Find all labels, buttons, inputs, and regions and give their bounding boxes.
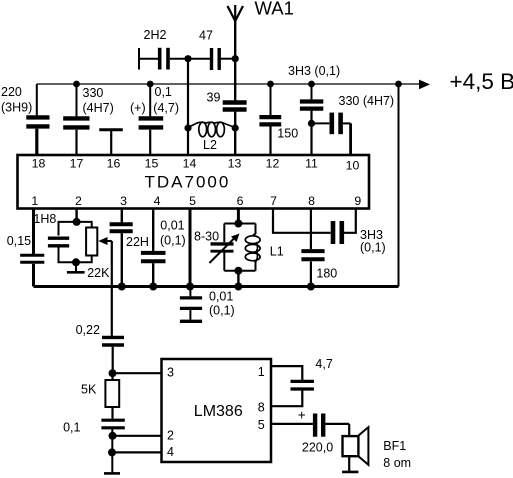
svg-text:12: 12	[266, 157, 280, 171]
svg-text:2: 2	[75, 194, 82, 208]
ground LM386 input	[104, 472, 120, 475]
svg-text:(+): (+)	[130, 101, 146, 115]
svg-text:18: 18	[32, 157, 46, 171]
svg-text:4: 4	[167, 445, 174, 459]
svg-text:0,01: 0,01	[160, 218, 184, 232]
capacitor 220 (3H9) on pin 18	[26, 84, 49, 155]
svg-text:(4,7): (4,7)	[153, 101, 179, 115]
junction pin 2 top	[73, 218, 81, 226]
capacitor 330 (4H7) horizontal to pin 10	[312, 113, 351, 155]
wire pin14 vertical (junction to L2 left to pin 14)	[187, 59, 189, 155]
junction pin 6 top	[234, 220, 242, 228]
svg-text:39: 39	[207, 91, 221, 105]
capacitor 220,0 on pin 5	[271, 414, 349, 437]
resistor 5K	[105, 373, 119, 418]
svg-text:0,01: 0,01	[209, 289, 233, 303]
wire to LM386 pin 2	[113, 435, 162, 437]
junction LM386 pin4 node	[108, 448, 116, 456]
junction bus/L1	[234, 283, 242, 291]
svg-text:8-30: 8-30	[194, 230, 219, 244]
svg-text:BF1: BF1	[383, 439, 406, 453]
svg-text:7: 7	[270, 194, 277, 208]
svg-text:1H8: 1H8	[33, 212, 56, 226]
junction L2 left	[184, 124, 191, 131]
wire pin 5 to bus	[189, 209, 192, 287]
junction L2 right	[232, 124, 239, 131]
svg-text:10: 10	[346, 159, 360, 173]
svg-text:47: 47	[199, 28, 213, 42]
svg-text:9: 9	[354, 194, 361, 208]
svg-text:LM386: LM386	[194, 403, 243, 420]
wire wiper down to 0,22	[111, 241, 113, 336]
ground pin 2 network	[67, 262, 85, 272]
junction rail/pin11 riser	[308, 81, 315, 88]
svg-text:(4H7): (4H7)	[83, 101, 114, 115]
junction L1 bottom	[234, 267, 242, 275]
svg-text:6: 6	[237, 194, 244, 208]
junction 2H2/pin14	[184, 55, 191, 62]
capacitor 2H2	[139, 48, 188, 70]
wire 0,1 cap down to ground	[111, 428, 113, 473]
junction LM386 pin3 node	[109, 369, 117, 377]
svg-text:5: 5	[189, 194, 196, 208]
svg-text:TDA7000: TDA7000	[145, 173, 231, 192]
svg-text:13: 13	[228, 157, 242, 171]
svg-text:220,0: 220,0	[302, 441, 333, 455]
svg-text:8: 8	[308, 194, 315, 208]
svg-text:8: 8	[258, 401, 265, 415]
wire pin 7 down and right	[273, 209, 331, 233]
trimmer capacitor 8-30	[209, 209, 255, 271]
bus bottom common	[34, 285, 399, 288]
wire pin 2 stub	[75, 209, 77, 222]
inductor L1	[245, 224, 260, 271]
svg-text:1: 1	[31, 194, 38, 208]
wire to LM386 pin 4	[112, 451, 162, 453]
capacitor 0,15 on pin 1	[20, 209, 44, 287]
svg-text:(0,1): (0,1)	[209, 304, 235, 318]
svg-text:22H: 22H	[126, 235, 149, 249]
svg-text:180: 180	[316, 267, 337, 281]
svg-text:8 om: 8 om	[383, 456, 411, 470]
potentiometer 22K	[76, 222, 97, 262]
junction bus/pin5	[186, 283, 194, 291]
junction LM386 pin2 node	[109, 432, 117, 440]
capacitor 180 on pin 8	[301, 209, 324, 287]
svg-text:+: +	[298, 408, 306, 423]
svg-text:WA1: WA1	[255, 0, 294, 18]
svg-text:11: 11	[305, 157, 318, 171]
ground pin 16 (top bar)	[99, 130, 123, 155]
junction rail/pin15 riser	[147, 81, 154, 88]
inductor L2	[188, 122, 235, 137]
antenna WA1	[228, 5, 244, 21]
svg-text:5: 5	[258, 418, 265, 432]
svg-text:16: 16	[107, 157, 121, 171]
svg-text:150: 150	[277, 127, 298, 141]
svg-text:(0,1): (0,1)	[160, 233, 186, 247]
svg-text:(3H9): (3H9)	[1, 101, 32, 115]
svg-text:0,22: 0,22	[76, 323, 100, 337]
capacitor 0,1 audio	[101, 420, 124, 428]
svg-text:14: 14	[183, 157, 197, 171]
svg-text:5K: 5K	[81, 382, 97, 396]
wire L1 bottom to bus	[237, 271, 239, 287]
svg-text:4,7: 4,7	[315, 357, 332, 371]
ground speaker	[342, 471, 358, 474]
svg-text:2H2: 2H2	[144, 28, 167, 42]
svg-text:330: 330	[83, 86, 104, 100]
svg-text:(0,1): (0,1)	[360, 241, 386, 255]
junction rail/right bus riser	[395, 81, 402, 88]
wire antenna mast down to 47pF junction	[234, 21, 236, 59]
capacitor 47	[188, 48, 235, 70]
capacitor 0,1 (4,7) electrolytic on pin 15	[139, 84, 164, 155]
power arrow +4,5V	[419, 80, 430, 90]
junction bus/pin3	[118, 283, 126, 291]
capacitor 150 on pin 12	[259, 84, 281, 155]
svg-text:+4,5 В: +4,5 В	[450, 69, 513, 94]
junction bus/pin8	[307, 283, 315, 291]
svg-text:0,1: 0,1	[155, 85, 172, 99]
junction bus/pin4	[149, 283, 157, 291]
IC U1 TDA7000 box	[18, 155, 370, 209]
potentiometer wiper arrow	[98, 237, 112, 245]
capacitor 3H3 (0,1) on pin 11	[300, 84, 323, 155]
svg-text:17: 17	[70, 157, 84, 171]
capacitor 0,01 (0,1) below bus	[180, 287, 202, 320]
svg-text:22K: 22K	[87, 266, 110, 280]
wire right riser rail to bus	[398, 84, 400, 287]
power rail +4,5V	[37, 83, 424, 85]
capacitor 0,22	[102, 337, 124, 373]
svg-text:3: 3	[120, 194, 127, 208]
junction rail/pin12 riser	[267, 81, 274, 88]
svg-text:1: 1	[258, 365, 265, 379]
capacitor 330 (4H7) on pin 17	[63, 84, 89, 155]
svg-text:0,1: 0,1	[63, 421, 80, 435]
junction 47/antenna	[232, 55, 239, 62]
svg-text:0,15: 0,15	[7, 234, 31, 248]
capacitor 39 in antenna line	[223, 59, 247, 128]
svg-text:15: 15	[145, 157, 159, 171]
capacitor 4,7 pins 1-8	[271, 366, 314, 406]
svg-text:2: 2	[167, 428, 174, 442]
capacitor 0,01 (0,1) on pin 4	[141, 209, 166, 287]
svg-text:L1: L1	[270, 245, 284, 259]
capacitor 3H3 (0,1) pins 7-9	[333, 209, 356, 245]
wire to LM386 pin 3	[113, 372, 162, 374]
wire pin 13 (L2 right to box)	[234, 128, 236, 155]
junction pin 2 bottom	[72, 258, 80, 266]
svg-text:220: 220	[1, 85, 22, 99]
IC U2 LM386 box	[162, 359, 272, 462]
svg-text:330 (4H7): 330 (4H7)	[339, 94, 395, 108]
svg-text:L2: L2	[203, 138, 217, 152]
speaker BF1	[343, 424, 369, 472]
svg-text:3H3 (0,1): 3H3 (0,1)	[288, 64, 340, 78]
junction rail/pin17 riser	[73, 81, 80, 88]
svg-text:4: 4	[154, 194, 161, 208]
ground below-bus cap	[180, 320, 202, 323]
capacitor 22H on pin 3	[110, 209, 133, 287]
junction pin11 / 330 cap	[308, 120, 315, 127]
svg-text:3: 3	[167, 366, 174, 380]
capacitor 1H8	[48, 222, 77, 262]
